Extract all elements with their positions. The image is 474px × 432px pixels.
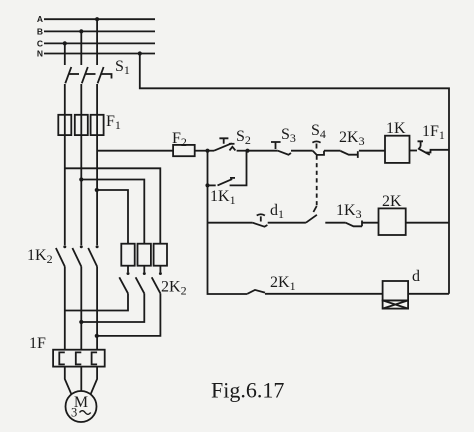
wire S1 to F1 pole3 xyxy=(96,84,98,115)
wire 1K2 pole1 down xyxy=(64,267,66,350)
contactor contact 2K2 pole3 xyxy=(152,272,162,293)
wire 2K2 pole2 to v2 xyxy=(81,293,144,322)
wire F1 through pole1 xyxy=(64,115,66,135)
svg-text:1K2: 1K2 xyxy=(27,247,53,266)
svg-text:2K: 2K xyxy=(382,193,402,210)
wire F2 to node X1 xyxy=(195,150,208,152)
thermal overload 1F outer box xyxy=(53,350,105,367)
node N tap dot xyxy=(138,51,142,55)
wire S1 to F1 pole1 xyxy=(64,84,66,115)
bus line A xyxy=(44,18,155,20)
contactor contact 1K2 pole3 xyxy=(88,245,98,266)
node v3 tap dot xyxy=(95,188,99,192)
wire resistor3 stub xyxy=(159,266,161,272)
svg-text:1K1: 1K1 xyxy=(210,188,236,207)
coil 1K box xyxy=(385,136,410,163)
coil 2K box xyxy=(379,208,406,235)
wire tap B (v2 to resistor2) xyxy=(81,180,144,244)
wire 2K2 pole1 to v1 xyxy=(65,293,128,310)
wire S1 to F1 pole2 xyxy=(80,84,82,115)
motor M1 circle xyxy=(66,391,97,422)
svg-text:1K3: 1K3 xyxy=(336,202,362,221)
fuse F1 pole2 xyxy=(75,115,88,135)
wire 1F to motor right xyxy=(91,367,97,394)
switch S1 pole 1 xyxy=(65,67,79,83)
mechanical link dashed from S4 xyxy=(316,156,318,207)
node X1 dot xyxy=(205,149,209,153)
thermal overload 1F heater1 xyxy=(59,352,65,364)
node B tap dot xyxy=(79,29,83,33)
fuse F1 pole3 xyxy=(91,115,104,135)
wire F1 through pole2 xyxy=(80,115,82,135)
svg-text:N: N xyxy=(37,49,43,59)
svg-text:d1: d1 xyxy=(270,202,284,221)
svg-text:2K3: 2K3 xyxy=(339,129,365,148)
bus line N xyxy=(44,53,155,55)
wire left branch down xyxy=(208,185,248,294)
svg-text:A: A xyxy=(37,14,43,24)
timer contact d1 xyxy=(253,214,306,226)
resistor box 1 xyxy=(121,244,134,266)
auxiliary contact 1K1 xyxy=(208,151,247,186)
svg-text:F1: F1 xyxy=(106,113,121,132)
wire 1K2 pole3 down xyxy=(96,267,98,350)
wire d to rail xyxy=(408,293,449,295)
node C tap dot xyxy=(63,41,67,45)
contactor contact 2K2 pole2 xyxy=(136,272,146,293)
time relay d box xyxy=(383,281,409,309)
pushbutton S2 xyxy=(208,138,248,150)
switch S1 pole 2 xyxy=(82,67,96,83)
pushbutton S3 xyxy=(271,142,313,155)
wire phase L2 top xyxy=(80,31,82,65)
contact 2K1 xyxy=(247,290,382,294)
svg-text:C: C xyxy=(37,38,43,48)
svg-text:B: B xyxy=(37,26,43,36)
wire 1F to motor mid xyxy=(80,367,82,391)
wire resistor2 stub xyxy=(143,266,145,272)
node v2 tap dot xyxy=(79,177,83,181)
contactor contact 1K2 pole2 xyxy=(72,245,82,266)
svg-text:Fig.6.17: Fig.6.17 xyxy=(211,378,284,403)
node X2 dot xyxy=(245,149,249,153)
wire N to right rail xyxy=(140,54,449,294)
switch S1 pole 3 xyxy=(98,67,112,83)
wire row2 left xyxy=(208,222,253,224)
wire tap C (v3 to resistor1) xyxy=(97,190,128,244)
thermal overload 1F heater2 xyxy=(76,352,82,364)
wire v1 down to 1K2 xyxy=(64,135,66,245)
svg-text:3: 3 xyxy=(71,406,77,420)
bus line C xyxy=(44,42,155,44)
svg-text:S3: S3 xyxy=(281,126,296,145)
wire phase L3 top xyxy=(96,19,98,65)
svg-text:d: d xyxy=(412,268,420,285)
pushbutton S4 xyxy=(312,141,340,155)
linked contact S4 row2 xyxy=(306,215,317,223)
wire tap A (v1 to resistor3) xyxy=(65,168,161,243)
node A tap dot xyxy=(95,17,99,21)
wire 2K2 pole3 to v3 xyxy=(97,293,161,336)
resistor box 2 xyxy=(138,244,151,266)
fuse F2 xyxy=(173,145,195,156)
node 1K1 branch dot xyxy=(205,183,209,187)
contact 2K3 xyxy=(341,151,385,158)
contactor contact 2K2 pole1 xyxy=(119,272,129,293)
thermal overload 1F heater3 xyxy=(92,352,98,364)
node v2 join dot xyxy=(79,320,83,324)
svg-text:2K2: 2K2 xyxy=(161,279,187,298)
wire resistor1 stub xyxy=(127,266,129,272)
contactor contact 1K2 pole1 xyxy=(56,245,66,266)
wire X1 down to 1K1 branch xyxy=(207,151,209,186)
svg-text:1F1: 1F1 xyxy=(422,123,445,142)
wire phase L1 top xyxy=(64,43,66,65)
contact 1K3 xyxy=(346,221,379,227)
wire 1K2 pole2 down xyxy=(80,267,82,350)
wire v2 down to 1K2 xyxy=(80,135,82,245)
wire X2 to S3 xyxy=(248,150,278,152)
svg-text:S1: S1 xyxy=(115,58,130,77)
wire v3 down to 1K2 xyxy=(96,135,98,245)
svg-text:2K1: 2K1 xyxy=(270,274,296,293)
wire F1 through pole3 xyxy=(96,115,98,135)
svg-text:F2: F2 xyxy=(172,130,187,149)
resistor box 3 xyxy=(154,244,167,266)
svg-text:S4: S4 xyxy=(311,122,326,141)
svg-text:1F: 1F xyxy=(29,335,46,352)
wire 1F to motor left xyxy=(65,367,71,394)
wire 2K to rail xyxy=(406,222,449,224)
bus line B xyxy=(44,30,155,32)
node v3 join dot xyxy=(95,334,99,338)
wire control tap from v3 to F2 xyxy=(97,150,173,152)
svg-text:1K: 1K xyxy=(386,120,406,137)
fuse F1 pole1 xyxy=(58,115,71,135)
thermal NC contact 1F1 xyxy=(410,141,450,155)
svg-text:S2: S2 xyxy=(236,128,251,147)
